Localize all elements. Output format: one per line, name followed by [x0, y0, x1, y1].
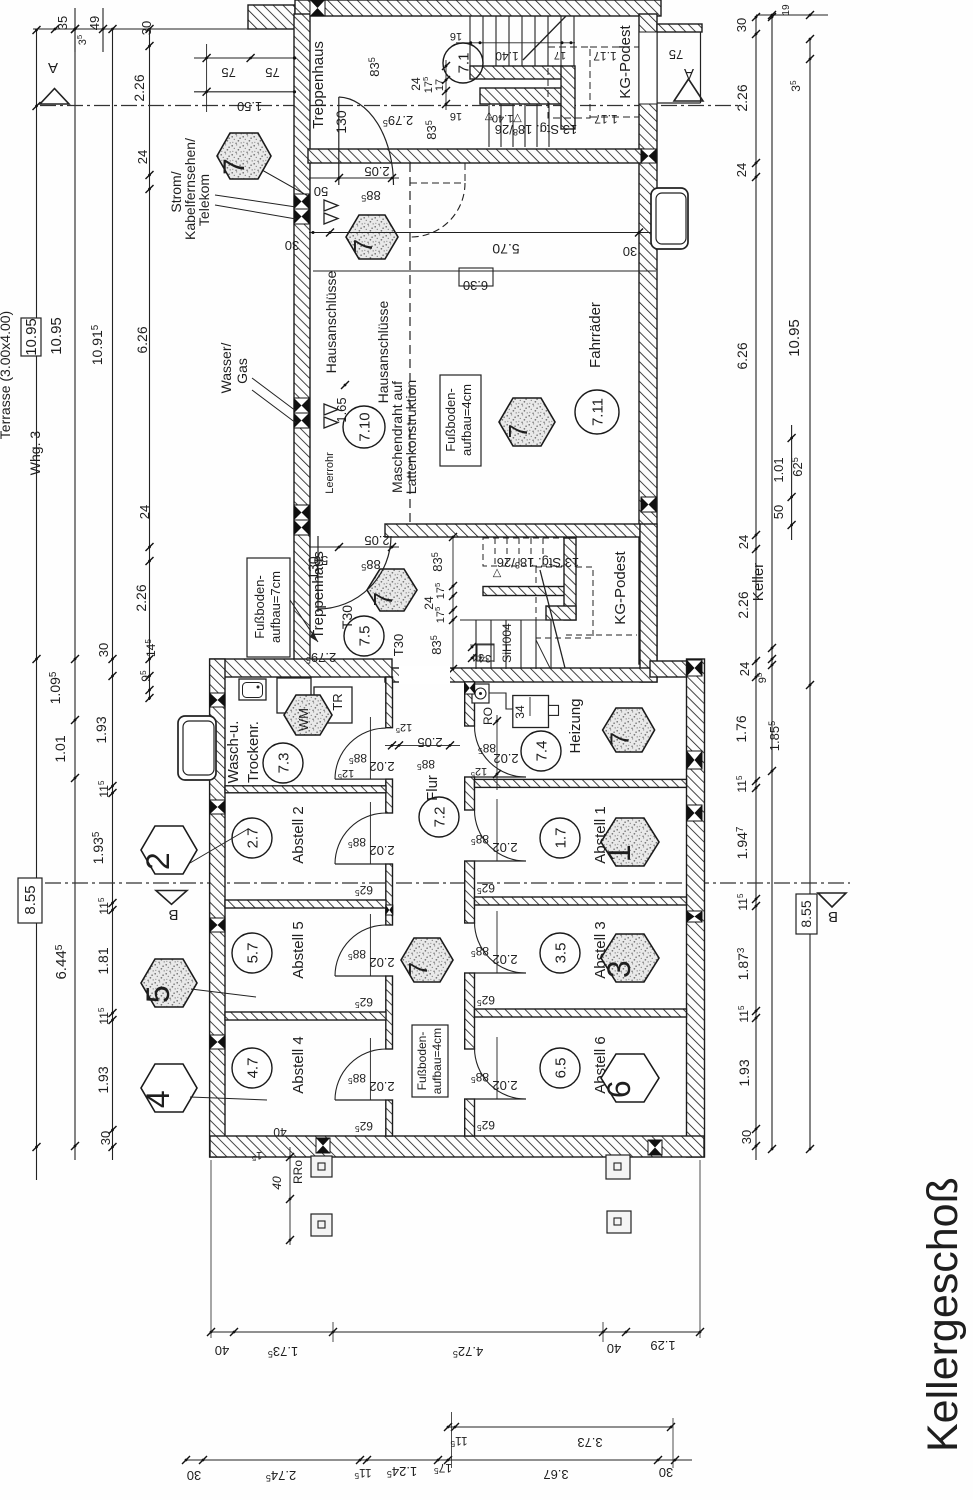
cross upper right wall stair: [641, 497, 656, 512]
label 75 annex: [669, 47, 683, 62]
label 13 Stg upper: [495, 122, 577, 137]
downspout RR left b: [311, 1214, 332, 1236]
cross upper left wall stair: [294, 505, 309, 535]
door Heizung: [471, 715, 526, 790]
section marker B left: [156, 891, 187, 924]
svg-text:1.17: 1.17: [593, 49, 617, 63]
svg-text:40: 40: [273, 1125, 287, 1139]
svg-text:24: 24: [736, 535, 751, 549]
circle 7.10: [343, 406, 385, 448]
label RRo: [291, 1160, 305, 1184]
arrows Strom connections: [215, 170, 338, 224]
bottom dimension chain H2a: [182, 1456, 692, 1483]
cross lower left wall c: [210, 918, 225, 932]
svg-text:Abstell 2: Abstell 2: [290, 806, 307, 864]
svg-text:SiH004: SiH004: [500, 623, 514, 663]
label 130 upper door: [333, 110, 349, 134]
svg-text:2.26: 2.26: [133, 584, 149, 611]
label Wasch-u: [225, 721, 242, 784]
svg-text:30: 30: [187, 1468, 201, 1483]
svg-text:Lattenkonstruktion: Lattenkonstruktion: [403, 380, 419, 494]
hexagon 7 Fahrraeder: [499, 398, 555, 446]
circle 1.7: [540, 818, 580, 858]
cross corridor right wall top: [465, 682, 475, 694]
svg-text:aufbau=4cm: aufbau=4cm: [459, 384, 474, 456]
circle 5.7: [232, 933, 272, 973]
circle 7.11: [575, 390, 619, 434]
svg-text:1.93: 1.93: [736, 1059, 752, 1086]
svg-text:2.02: 2.02: [369, 759, 394, 774]
right mini chain 1.01/62/50: [771, 425, 805, 540]
right dimension line R2: [755, 13, 782, 1153]
svg-text:30: 30: [285, 238, 299, 253]
staircase 7.1 newel wall vertical: [561, 66, 575, 129]
hexagon 6: [601, 1054, 659, 1102]
svg-text:7: 7: [403, 962, 433, 976]
svg-text:Keller: Keller: [750, 563, 767, 601]
svg-text:24: 24: [135, 150, 150, 164]
hexagon 2 callout: [140, 826, 248, 874]
cross lower left wall b: [210, 800, 225, 814]
label Fahrraeder: [587, 302, 604, 368]
staircase 7.1 newel wall horizontal: [470, 66, 562, 79]
stair dim cluster left: [367, 57, 450, 140]
section marker B right: [818, 893, 846, 925]
svg-text:KG-Podest: KG-Podest: [617, 24, 634, 98]
svg-text:16: 16: [450, 30, 462, 42]
svg-text:3.67: 3.67: [543, 1467, 568, 1482]
label Terrasse: [0, 311, 13, 439]
svg-text:1.01: 1.01: [771, 457, 786, 482]
svg-text:6.30: 6.30: [463, 278, 488, 293]
svg-text:Fußboden-: Fußboden-: [252, 575, 267, 639]
label SiH004: [500, 623, 514, 663]
section marker A left: [40, 59, 69, 104]
svg-text:Fahrräder: Fahrräder: [587, 302, 604, 368]
svg-text:1.17: 1.17: [594, 112, 618, 126]
svg-text:B: B: [168, 906, 178, 923]
svg-text:1.29: 1.29: [650, 1338, 675, 1353]
corridor top door gap: [399, 666, 450, 684]
pilaster crosses Wasser: [294, 398, 309, 428]
hexagon 3: [601, 934, 659, 982]
svg-text:Gas: Gas: [234, 358, 250, 384]
svg-text:30: 30: [98, 1131, 113, 1145]
partition Abstell1/Abstell3: [475, 897, 687, 905]
top wall band: [295, 0, 661, 16]
hexagon 7 callout top: [217, 133, 308, 196]
label 1-5 corner: [252, 1149, 262, 1163]
svg-text:4: 4: [140, 1090, 176, 1108]
left dimension line L2 10.95/1.09/1.01/6.44: [47, 25, 79, 1160]
lower building top wall left: [210, 659, 392, 677]
svg-text:6.26: 6.26: [134, 326, 150, 353]
svg-text:1.50: 1.50: [237, 99, 262, 114]
circle 7.3: [263, 743, 303, 783]
label Whg 3: [27, 431, 43, 476]
staircase 7.1 newel wall lower: [480, 88, 562, 104]
label RO: [481, 707, 495, 725]
svg-text:4.7: 4.7: [244, 1058, 261, 1079]
staircase 7.1 upper flight steps: [470, 16, 574, 68]
boxed dimension 10.95 left: [21, 318, 41, 356]
label 34 above wall: [470, 645, 494, 663]
svg-text:2.02: 2.02: [492, 1078, 517, 1093]
svg-text:13 Stg. 188/26: 13 Stg. 188/26: [497, 555, 579, 570]
label KG-Podest upper: [617, 24, 634, 98]
boxed dimension 6.30: [459, 268, 493, 293]
svg-text:8.55: 8.55: [798, 900, 814, 927]
label Telekom: [196, 174, 212, 226]
label Maschendraht: [389, 381, 405, 493]
svg-text:7.3: 7.3: [275, 753, 292, 774]
left dimension line L3 room chain: [89, 25, 117, 1160]
door Abstell2: [335, 802, 395, 898]
label 1.40 dashed: [488, 112, 522, 124]
lower right wall: [687, 659, 705, 1157]
washbasin: [239, 679, 266, 700]
section line B-B: [45, 882, 850, 884]
svg-text:2.7: 2.7: [244, 828, 261, 849]
lower building top wall right: [650, 661, 704, 677]
label KG-Podest lower: [612, 550, 629, 624]
svg-text:7.5: 7.5: [356, 626, 373, 647]
circle 7.4: [521, 731, 561, 771]
cross lower right wall c: [687, 805, 702, 821]
cross bottom wall left: [316, 1138, 330, 1153]
partition Abstell5/Abstell4: [225, 1012, 386, 1020]
label 130 lower: [305, 556, 321, 580]
svg-text:2.02: 2.02: [493, 751, 518, 766]
label Leerrohr: [324, 452, 336, 494]
svg-text:10.95: 10.95: [23, 318, 40, 356]
svg-text:Telekom: Telekom: [196, 174, 212, 226]
svg-text:aufbau=4cm: aufbau=4cm: [430, 1028, 444, 1094]
svg-text:aufbau=7cm: aufbau=7cm: [268, 571, 283, 643]
label Strom: [168, 171, 184, 212]
svg-text:34: 34: [513, 705, 527, 719]
svg-text:2.05: 2.05: [364, 533, 389, 548]
boxed dimension 8.55 right: [796, 894, 817, 934]
svg-text:40: 40: [215, 1343, 229, 1358]
svg-text:KG-Podest: KG-Podest: [612, 550, 629, 624]
circle 7.2: [419, 797, 459, 837]
upper right wall: [639, 14, 657, 664]
svg-text:10.95: 10.95: [786, 319, 803, 357]
svg-text:2.02: 2.02: [369, 1079, 394, 1094]
dimension 1.50 top: [194, 88, 296, 114]
hexagon WM: [284, 695, 332, 735]
svg-text:75: 75: [221, 65, 235, 80]
svg-text:Whg. 3: Whg. 3: [27, 431, 43, 476]
door Abstell1: [471, 799, 526, 896]
label 34 box lower stair: [468, 643, 494, 664]
cross lower left wall a: [210, 693, 225, 707]
svg-text:5.7: 5.7: [244, 943, 261, 964]
svg-text:Treppenhaus: Treppenhaus: [310, 41, 327, 129]
staircase 7.5 newel bar horizontal: [483, 587, 566, 596]
section marker A right: [674, 65, 703, 101]
svg-text:50: 50: [314, 184, 328, 199]
door Abstell5: [335, 914, 395, 1010]
label Kabelfernsehen: [182, 138, 198, 240]
svg-text:6.26: 6.26: [734, 342, 750, 369]
svg-text:1.01: 1.01: [52, 735, 68, 762]
svg-text:3.73: 3.73: [577, 1435, 602, 1450]
svg-text:2: 2: [140, 852, 176, 870]
circle 3.5: [540, 933, 580, 973]
light well right wall: [651, 188, 688, 249]
box Fussboden 7cm: [247, 558, 318, 657]
svg-text:30: 30: [659, 1465, 673, 1480]
top pier wall: [248, 5, 295, 29]
dim cluster corridor top: [385, 721, 460, 772]
downspout dim chain: [270, 1147, 294, 1245]
svg-text:1.76: 1.76: [733, 715, 749, 742]
svg-text:40: 40: [607, 1341, 621, 1356]
svg-text:TR: TR: [330, 693, 345, 710]
label Keller: [750, 563, 767, 601]
partition Heizung/Abstell1: [475, 779, 687, 787]
door Wasch: [335, 717, 395, 781]
svg-text:7.1: 7.1: [455, 53, 472, 74]
svg-text:7: 7: [368, 592, 398, 606]
cross lower right wall b: [687, 751, 702, 769]
left dimension line L4 upper chain: [131, 21, 158, 702]
downspout right a: [606, 1155, 630, 1179]
svg-text:24: 24: [737, 662, 752, 676]
staircase 7.1 dashed landing outline: [548, 47, 639, 118]
svg-text:7: 7: [503, 424, 533, 438]
svg-text:13 Stg. 188/26: 13 Stg. 188/26: [495, 122, 577, 137]
svg-text:50: 50: [771, 505, 786, 519]
label Abstell 5: [290, 921, 307, 979]
svg-text:Leerrohr: Leerrohr: [324, 452, 336, 494]
cross lower right wall a: [687, 660, 702, 676]
label 16 a: [450, 30, 462, 42]
svg-text:6.5: 6.5: [552, 1058, 569, 1079]
svg-text:17: 17: [554, 49, 566, 61]
door gap upper right wall: [640, 32, 657, 104]
partition Abstell2/Abstell5: [225, 900, 386, 908]
svg-text:1.7: 1.7: [552, 828, 569, 849]
right dimension line R1 room chain: [733, 13, 760, 1160]
svg-text:1.40: 1.40: [495, 49, 519, 63]
cross lower left wall d: [210, 1035, 225, 1049]
svg-text:30: 30: [623, 244, 637, 259]
lower bottom wall: [210, 1136, 704, 1157]
label Heizung: [567, 698, 584, 753]
svg-text:1.81: 1.81: [95, 947, 111, 974]
svg-text:30: 30: [96, 643, 111, 657]
wall below staircase 7.1: [308, 149, 642, 163]
dashed door arc Fahrraeder: [410, 163, 465, 237]
svg-text:2.02: 2.02: [369, 843, 394, 858]
svg-text:2.26: 2.26: [735, 591, 751, 618]
label 2.79 lower: [306, 650, 336, 665]
svg-text:Heizung: Heizung: [567, 698, 584, 753]
staircase 7.5 cut line: [540, 570, 565, 668]
svg-text:30: 30: [739, 1130, 754, 1144]
svg-text:24: 24: [734, 163, 749, 177]
dim cluster 2.05/88/50 upper: [309, 164, 399, 203]
svg-text:2.05: 2.05: [417, 735, 442, 750]
svg-text:49: 49: [87, 16, 102, 30]
boxed dimension 8.55 left: [18, 878, 42, 923]
label 2.79 upper: [383, 113, 413, 128]
hexagon 4 callout: [140, 1064, 267, 1112]
dim cluster 2.05/88/50 lower: [309, 533, 399, 572]
label Abstell 2: [290, 806, 307, 864]
tread arrow upper: [484, 110, 493, 122]
svg-text:10.95: 10.95: [48, 317, 65, 355]
svg-text:RO: RO: [481, 707, 495, 725]
bottom dimension chain H2b: [444, 1412, 675, 1468]
box Fussboden 4cm Flur: [412, 1025, 448, 1097]
svg-text:2.02: 2.02: [369, 955, 394, 970]
staircase 7.5 bottom wall: [385, 668, 657, 682]
svg-text:RRo: RRo: [291, 1160, 305, 1184]
light well left wall: [178, 716, 216, 780]
boiler: [513, 696, 559, 728]
hexagon 7 staircase 7.5: [367, 569, 417, 611]
label Trockenr: [245, 721, 262, 783]
cross corridor left wall mid: [386, 905, 393, 915]
cross upper right wall mid: [641, 149, 656, 163]
label Treppenhaus lower: [310, 551, 327, 639]
hexagon 1: [601, 818, 659, 866]
svg-text:1.93: 1.93: [95, 1066, 111, 1093]
svg-text:16: 16: [450, 110, 462, 122]
label 1.17 b: [594, 112, 618, 126]
stair 7.5 dim column: [422, 533, 457, 673]
dimension 5.70: [285, 229, 658, 260]
floor line Fahrraeder: [313, 270, 656, 272]
label 40 wall corner: [273, 1125, 287, 1139]
label Flur: [424, 775, 441, 801]
top-left mini dimension chain 35/49/35: [33, 8, 248, 52]
svg-text:2.05: 2.05: [364, 164, 389, 179]
svg-text:B: B: [828, 908, 838, 925]
circle 2.7: [232, 818, 272, 858]
leader line boiler: [536, 640, 550, 668]
door arc staircase 7.5: [318, 536, 391, 612]
svg-text:75: 75: [265, 65, 279, 80]
corridor left wall: [386, 677, 393, 1136]
svg-text:7.10: 7.10: [356, 412, 373, 441]
svg-text:7: 7: [218, 158, 251, 175]
door Abstell6: [471, 1037, 526, 1133]
pilaster crosses Strom: [294, 194, 309, 224]
svg-text:Kellergeschoß: Kellergeschoß: [919, 1177, 967, 1452]
dashed partition Maschendraht: [409, 163, 411, 524]
left dimension line L1 overall: [33, 26, 41, 1180]
section line A-A: [40, 105, 742, 107]
hexagon 5 callout: [140, 959, 256, 1007]
svg-text:▽: ▽: [492, 567, 501, 579]
svg-text:130: 130: [333, 110, 349, 134]
bottom dimension chain H1: [207, 1160, 704, 1359]
svg-text:Fußboden-: Fußboden-: [443, 388, 458, 452]
svg-text:10.915: 10.915: [89, 324, 105, 365]
svg-text:▽: ▽: [484, 110, 493, 122]
cross lower right wall d: [687, 911, 702, 922]
downspout RR left a: [311, 1156, 332, 1177]
dimension 75/75 top: [194, 44, 296, 112]
staircase 7.1 cut line: [523, 16, 566, 60]
svg-text:3.5: 3.5: [552, 943, 569, 964]
upper left wall: [294, 14, 310, 664]
svg-text:7: 7: [348, 239, 378, 253]
title Kellergeschoss: [919, 1177, 967, 1452]
partition Abstell3/Abstell6: [475, 1009, 687, 1017]
cross top wall junction: [310, 0, 325, 16]
svg-text:30: 30: [139, 21, 154, 35]
label 13 Stg lower: [497, 555, 579, 570]
label Wasser: [218, 342, 234, 393]
right dimension line R3: [786, 35, 814, 1153]
svg-text:19: 19: [781, 4, 792, 16]
appliance square: [277, 678, 311, 713]
tread arrow lower: [492, 567, 501, 579]
svg-text:Wasch-u.: Wasch-u.: [225, 721, 242, 784]
box Fussboden 4cm Fahrraeder: [440, 375, 481, 466]
svg-text:75: 75: [669, 47, 683, 62]
svg-text:2.26: 2.26: [131, 74, 147, 101]
svg-text:17: 17: [434, 79, 446, 91]
svg-text:1.65: 1.65: [334, 397, 349, 422]
staircase 7.5 dashed outlines: [483, 538, 637, 638]
svg-text:7.4: 7.4: [533, 741, 550, 762]
svg-text:WM: WM: [296, 708, 311, 731]
staircase 7.5 newel foot: [546, 606, 576, 620]
label Hausanschluesse b: [375, 300, 391, 403]
lower left wall: [210, 659, 225, 1157]
label Abstell 1: [592, 806, 609, 864]
downspout right b: [607, 1211, 631, 1233]
label Abstell 3: [592, 921, 609, 979]
circle 7.1: [443, 43, 483, 83]
svg-text:24: 24: [137, 505, 152, 519]
annex band top right: [657, 24, 702, 32]
svg-text:8.55: 8.55: [22, 885, 39, 914]
svg-text:1: 1: [601, 844, 637, 862]
svg-text:5.70: 5.70: [492, 241, 519, 257]
label 1.65: [334, 381, 349, 423]
label Treppenhaus upper: [310, 41, 327, 129]
staircase 7.5 newel bar vertical: [564, 538, 576, 620]
dryer TR box: [314, 687, 352, 723]
floor drain symbol: [472, 684, 489, 703]
svg-text:Abstell 4: Abstell 4: [290, 1036, 307, 1094]
svg-text:A: A: [684, 65, 694, 82]
svg-text:Wasser/: Wasser/: [218, 342, 234, 393]
door Abstell4: [335, 1038, 395, 1134]
cross stair wall 7.5: [639, 835, 641, 837]
label Lattenkonstruktion: [403, 380, 419, 494]
label 16 b: [450, 110, 462, 122]
svg-text:7.11: 7.11: [589, 398, 606, 426]
svg-text:2.02: 2.02: [492, 840, 517, 855]
label Hausanschluesse a: [323, 270, 339, 373]
svg-text:2.02: 2.02: [492, 952, 517, 967]
svg-text:Hausanschlüsse: Hausanschlüsse: [323, 270, 339, 373]
svg-text:6: 6: [601, 1080, 637, 1098]
label T30 lower: [339, 605, 355, 629]
label Abstell 4: [290, 1036, 307, 1094]
svg-text:2.26: 2.26: [734, 84, 750, 111]
door arc staircase 7.1: [339, 97, 394, 185]
